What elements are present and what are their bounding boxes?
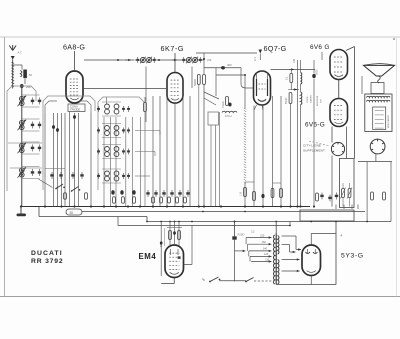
svg-text:1 M: 1 M [240,192,243,196]
svg-text:TRIODE: TRIODE [70,108,80,112]
svg-text:0,5 H: 0,5 H [225,114,231,118]
svg-text:A.T.: A.T. [18,51,23,55]
svg-text:BOB.CAMPO: BOB.CAMPO [387,114,390,128]
svg-text:6A8-G: 6A8-G [63,43,85,52]
svg-text:6K7-G: 6K7-G [161,44,185,53]
svg-text:30: 30 [70,211,74,215]
svg-text:CAMPO: CAMPO [310,95,313,103]
svg-text:258: 258 [26,85,31,89]
svg-text:FUSO: FUSO [238,234,245,237]
svg-text:EM4: EM4 [139,252,157,261]
svg-text:50000: 50000 [194,79,197,86]
svg-text:CORR: CORR [307,96,309,103]
svg-text:6Q7-G: 6Q7-G [264,44,287,53]
svg-text:1MEG: 1MEG [222,101,225,108]
svg-text:0,1: 0,1 [286,76,289,80]
svg-text:3,2: 3,2 [251,231,255,234]
svg-text:110: 110 [265,258,270,261]
svg-text:47k: 47k [207,58,212,62]
svg-text:6V6 G: 6V6 G [310,44,330,51]
svg-text:5Y3-G: 5Y3-G [341,253,364,260]
svg-text:BOB MOB: BOB MOB [317,95,319,106]
svg-text:DUCATI: DUCATI [31,250,63,257]
svg-text:125: 125 [264,253,269,256]
svg-text:400: 400 [227,63,232,67]
svg-text:∿: ∿ [202,277,206,282]
svg-text:6V6-G: 6V6-G [305,121,325,128]
svg-text:220: 220 [260,234,265,237]
svg-text:0,1: 0,1 [253,57,257,61]
svg-text:CITY-LIGNE: CITY-LIGNE [303,144,321,148]
svg-text:140: 140 [263,248,268,251]
svg-text:100: 100 [293,58,296,63]
svg-text:3000: 3000 [316,69,319,75]
svg-text:50000: 50000 [286,97,288,104]
svg-text:RR 3792: RR 3792 [31,258,63,265]
svg-text:160: 160 [262,241,267,244]
